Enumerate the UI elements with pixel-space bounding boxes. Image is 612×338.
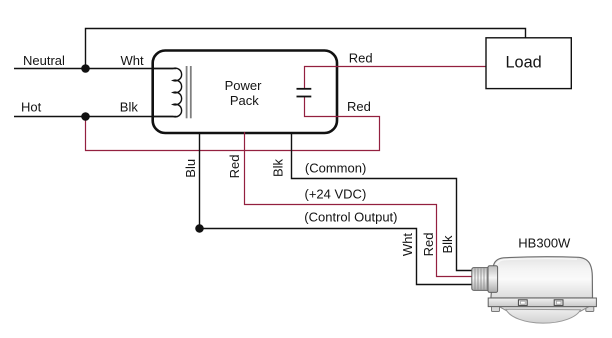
wire red from capacitor top to Load <box>305 67 487 89</box>
sensor clip tab mid-left <box>518 300 527 306</box>
svg-text:Red: Red <box>421 233 436 257</box>
svg-text:(Control Output): (Control Output) <box>304 209 397 224</box>
svg-text:Red: Red <box>227 155 242 179</box>
svg-text:Blk: Blk <box>120 100 139 115</box>
occupancy sensor HB300W <box>472 257 597 323</box>
svg-text:Pack: Pack <box>230 93 259 108</box>
wire red from capacitor bottom loop to Hot junction <box>86 97 380 151</box>
load box <box>486 38 571 89</box>
svg-text:Neutral: Neutral <box>23 53 65 68</box>
svg-text:Red: Red <box>347 99 371 114</box>
svg-text:Wht: Wht <box>400 233 415 257</box>
sensor outer tab left <box>492 306 500 312</box>
svg-text:(Common): (Common) <box>305 161 366 176</box>
svg-text:Power: Power <box>225 78 263 93</box>
svg-text:Blk: Blk <box>271 158 286 177</box>
wire red +24VDC from pack to sensor <box>245 132 476 277</box>
sensor lens dome <box>506 309 581 323</box>
wire blu drop and control output run to sensor <box>199 132 475 285</box>
wire blk drop and common run to sensor <box>292 132 476 271</box>
svg-text:(+24 VDC): (+24 VDC) <box>305 187 367 202</box>
sensor outer tab right <box>586 306 594 312</box>
sensor body dome <box>491 257 593 298</box>
svg-text:HB300W: HB300W <box>518 236 571 251</box>
transformer T1 primary coil <box>153 68 182 117</box>
sensor flange <box>488 298 596 307</box>
wire neutral riser to Load <box>86 29 526 69</box>
sensor body highlight <box>496 259 577 267</box>
transformer T1 core bars <box>187 66 191 118</box>
junction node at control output <box>195 224 204 233</box>
wire hot line <box>14 116 177 118</box>
svg-text:Wht: Wht <box>121 53 145 68</box>
capacitor C1 plates <box>297 89 312 97</box>
svg-text:Hot: Hot <box>21 100 42 115</box>
sensor base trapezoid <box>499 307 589 312</box>
svg-text:Blu: Blu <box>183 159 198 178</box>
sensor threaded nipple <box>472 268 490 291</box>
sensor clip tab mid-right <box>554 300 563 306</box>
power pack U1 <box>153 51 337 134</box>
junction node at hot <box>81 112 90 121</box>
svg-text:Red: Red <box>349 51 373 66</box>
svg-text:Blk: Blk <box>440 235 455 254</box>
junction node at neutral <box>81 64 90 73</box>
wire neutral line <box>14 68 177 70</box>
svg-text:Load: Load <box>506 53 542 71</box>
sensor collar <box>488 266 498 293</box>
